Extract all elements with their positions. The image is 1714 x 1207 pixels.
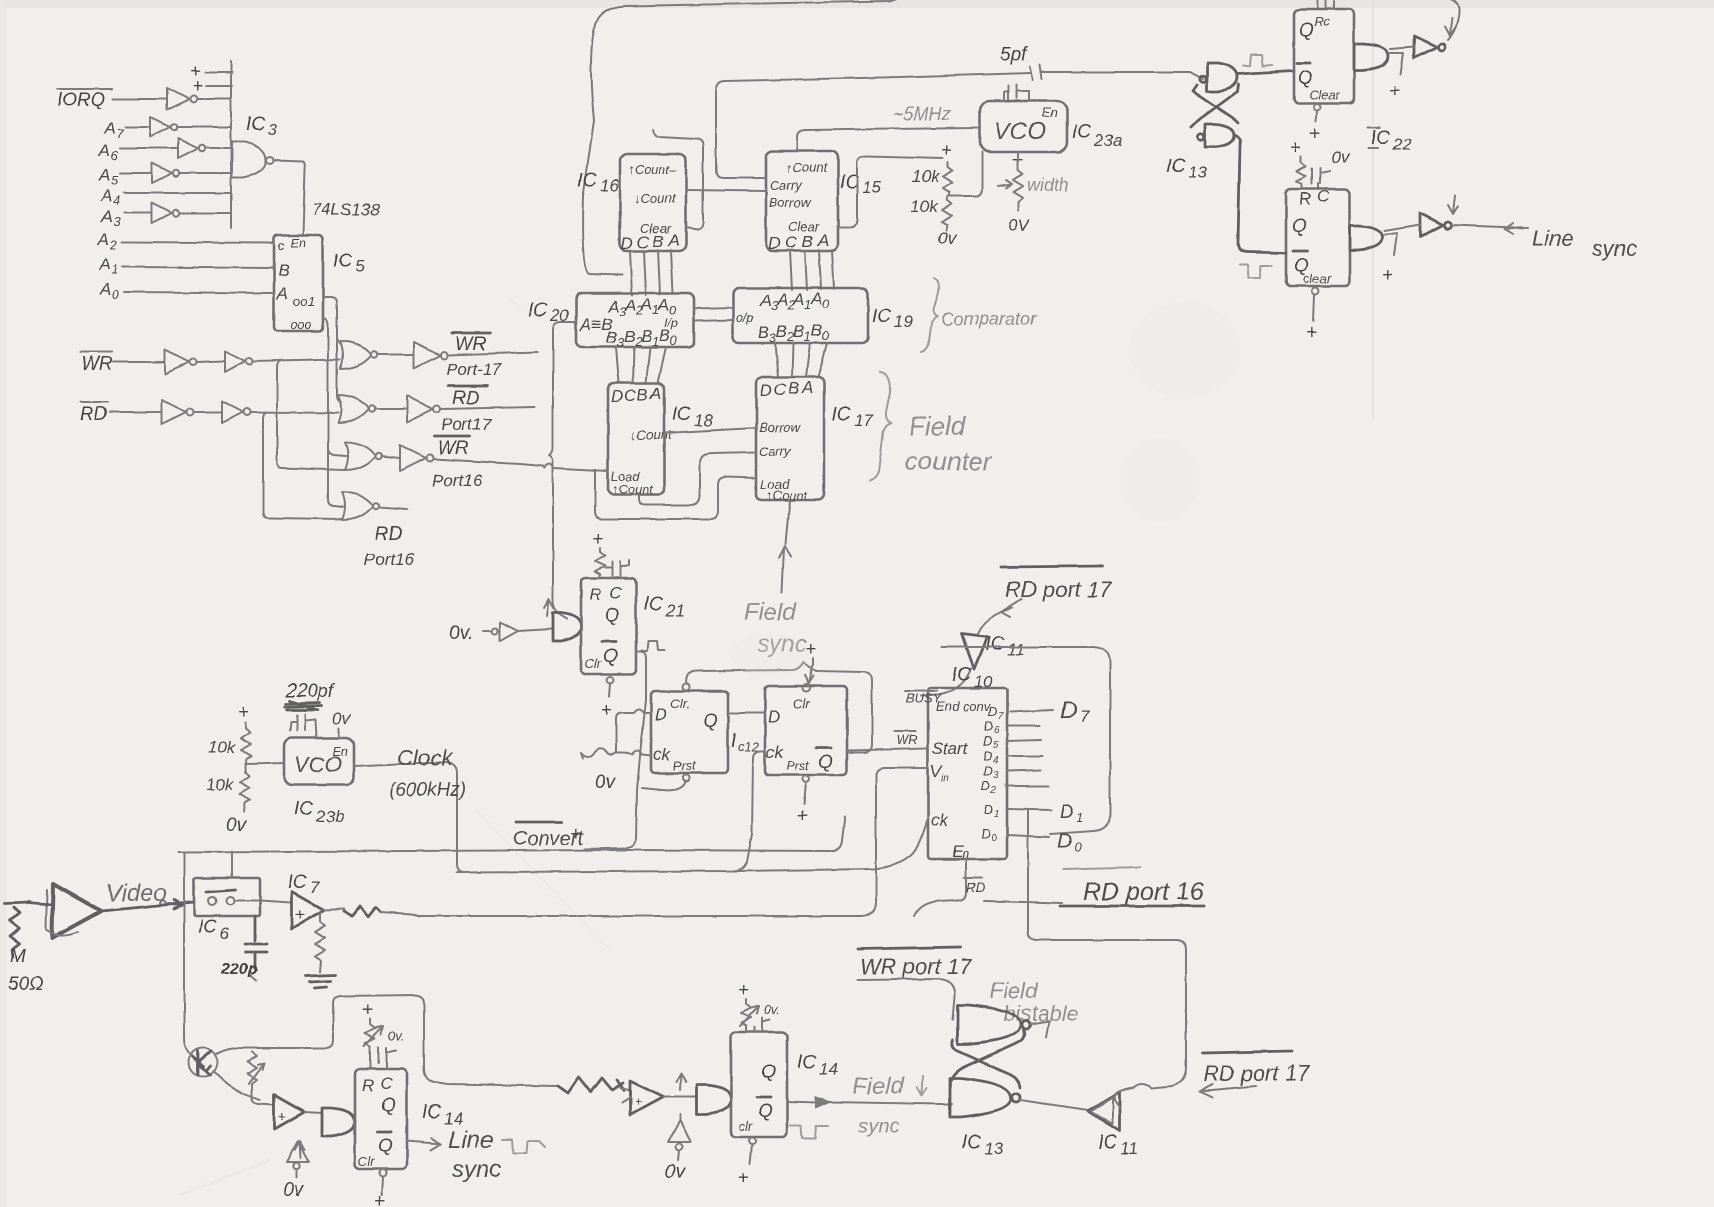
label IC20 — [528, 300, 569, 325]
power resistor cap above IC14b — [738, 980, 780, 1032]
svg-text:C: C — [637, 233, 650, 252]
adc IC10 — [905, 688, 1007, 861]
svg-text:IC: IC — [333, 251, 352, 272]
wire A5 to bus — [180, 172, 230, 174]
svg-text:+: + — [634, 1094, 642, 1109]
svg-text:width: width — [1027, 175, 1069, 195]
input bus vertical — [230, 61, 232, 228]
svg-text:ooo: ooo — [290, 317, 312, 332]
svg-text:A: A — [640, 295, 652, 314]
wire IC18 dcount to IC17 borrow — [664, 428, 756, 433]
wire D0 — [1007, 835, 1049, 837]
svg-text:0: 0 — [112, 287, 120, 302]
svg-text:I: I — [731, 731, 737, 752]
wire — [375, 408, 406, 410]
svg-text:2: 2 — [990, 785, 997, 796]
net D7 — [1060, 697, 1090, 726]
node 0v — [449, 623, 491, 644]
svg-text:IC: IC — [1098, 1132, 1117, 1153]
squiggle mark on sample wire — [558, 1077, 624, 1093]
and gate IC14a — [322, 1108, 355, 1136]
svg-text:D: D — [760, 381, 772, 400]
svg-text:+: + — [592, 529, 603, 550]
svg-text:0: 0 — [670, 333, 678, 348]
inverter RD 1 — [162, 400, 194, 424]
label IC18 — [672, 404, 713, 430]
svg-text:14: 14 — [819, 1059, 838, 1078]
wire IORQ to inverter — [113, 98, 166, 100]
svg-text:74LS138: 74LS138 — [312, 200, 381, 219]
wire 5pf line into top nand — [1190, 72, 1203, 79]
wire loop from D column to IC11 input — [1115, 1067, 1186, 1108]
wire bistable out to IC11 — [1020, 1100, 1088, 1110]
wire IC15 carry to 5pf line — [716, 73, 1030, 178]
or gate WR port17 — [340, 341, 377, 369]
monostable IC21 — [581, 578, 636, 674]
arrow annotation — [544, 599, 554, 616]
and gate IC22b trigger — [1350, 226, 1382, 250]
label IC5 — [333, 251, 365, 276]
svg-text:Q: Q — [378, 1136, 393, 1157]
label IC16 — [578, 170, 619, 195]
svg-text:3: 3 — [993, 770, 999, 781]
svg-text:A: A — [667, 231, 679, 250]
svg-text:counter: counter — [905, 446, 993, 476]
svg-text:VCO: VCO — [994, 118, 1046, 145]
potentiometer width — [998, 150, 1069, 210]
wire to video bus — [381, 912, 420, 916]
svg-text:0: 0 — [991, 833, 997, 844]
counter IC18 — [608, 383, 673, 497]
svg-text:+: + — [1306, 322, 1317, 343]
svg-text:A: A — [276, 284, 288, 303]
node 0v — [332, 709, 351, 738]
arrow annotation — [1448, 196, 1458, 214]
svg-text:↓Count: ↓Count — [634, 191, 677, 206]
svg-text:A: A — [607, 297, 619, 316]
svg-text:A: A — [99, 280, 111, 299]
wire 001 select vertical — [323, 297, 341, 402]
monostable IC14a — [355, 1069, 407, 1169]
svg-text:clear: clear — [1303, 271, 1332, 286]
svg-text:IC: IC — [294, 799, 313, 820]
faint pencil smudges — [180, 300, 1240, 1195]
svg-text:Carry: Carry — [770, 178, 803, 193]
wire top nand out to IC22a — [1237, 71, 1294, 74]
svg-text:A: A — [97, 230, 109, 249]
svg-text:ck: ck — [653, 745, 672, 764]
wire clock squiggle into IC12a ck and D loop — [581, 748, 651, 759]
svg-text:Port16: Port16 — [364, 550, 415, 569]
svg-text:17: 17 — [854, 411, 873, 430]
wire En down and left — [914, 859, 966, 916]
wire WR port16 into IC18 load with hop — [543, 464, 608, 472]
svg-text:↑Count: ↑Count — [766, 488, 809, 503]
wire IC16 clear loop — [653, 130, 703, 229]
svg-text:+: + — [737, 1168, 748, 1189]
label IC15 — [840, 172, 881, 197]
svg-text:+: + — [362, 1000, 373, 1021]
svg-text:IC: IC — [1072, 122, 1091, 143]
svg-text:A: A — [103, 119, 115, 138]
svg-text:D: D — [983, 748, 992, 763]
input connector — [5, 902, 44, 995]
wire A1 to IC5 — [122, 267, 274, 268]
svg-text:B: B — [641, 327, 652, 346]
label IC14 — [422, 1102, 463, 1128]
svg-text:o/p: o/p — [736, 310, 754, 325]
wire clamp to comparator node — [213, 1071, 260, 1100]
wire D7 — [1010, 710, 1053, 712]
label Field sync — [744, 599, 806, 658]
svg-text:7: 7 — [310, 878, 320, 897]
svg-text:Port-17: Port-17 — [446, 360, 502, 379]
inverter WR 2 — [225, 351, 253, 372]
amplifier video in — [46, 884, 101, 938]
buffer IC11 bottom — [1088, 1092, 1120, 1131]
svg-text:+: + — [374, 1191, 385, 1207]
svg-text:clr: clr — [739, 1119, 753, 1134]
switch IC6 — [194, 878, 260, 916]
wire loop around right of ADC — [941, 647, 1110, 834]
comparator IC20 — [576, 293, 694, 350]
flipflop IC12a — [651, 691, 728, 773]
svg-text:sync: sync — [452, 1156, 501, 1183]
svg-text:IC: IC — [288, 872, 307, 893]
wire load tie IC18 to IC17 — [595, 470, 756, 519]
wire — [382, 456, 399, 458]
svg-text:Field: Field — [852, 1073, 905, 1100]
svg-text:6: 6 — [111, 148, 119, 163]
wire IC3 out to IC5 En — [274, 160, 305, 234]
svg-text:Q: Q — [1292, 216, 1307, 237]
svg-text:1: 1 — [111, 262, 118, 277]
svg-text:R: R — [589, 585, 601, 604]
svg-text:B: B — [811, 321, 822, 340]
wire hook — [1389, 53, 1403, 74]
svg-text:7: 7 — [998, 711, 1004, 722]
label IC23b — [294, 799, 344, 826]
wire A7 to bus — [178, 126, 230, 128]
svg-text:0: 0 — [822, 296, 830, 311]
svg-text:D: D — [983, 733, 992, 748]
capacitor above IC23b — [290, 714, 316, 738]
svg-text:+: + — [738, 980, 749, 1001]
inverter 0v vertical — [283, 1141, 309, 1201]
label IC10 — [952, 665, 993, 691]
prst bubble IC12a and wire to convert drop — [642, 775, 690, 791]
svg-text:RD: RD — [452, 388, 480, 409]
svg-text:0: 0 — [822, 328, 830, 343]
clr bubble IC12a — [683, 684, 690, 691]
svg-text:A: A — [810, 289, 822, 308]
inverter A6 — [178, 138, 205, 158]
preset pot threshold — [247, 1052, 265, 1087]
wire D5 — [1007, 740, 1041, 741]
svg-text:WR: WR — [81, 354, 113, 375]
power resistor cap above IC14a — [362, 1000, 404, 1069]
svg-text:7: 7 — [116, 126, 124, 141]
svg-text:Clr.: Clr. — [670, 696, 690, 711]
svg-text:0v.: 0v. — [449, 623, 473, 644]
svg-text:IC: IC — [1371, 128, 1390, 149]
svg-text:A: A — [100, 207, 112, 226]
and gate IC21 trigger — [553, 612, 581, 641]
svg-text:0v: 0v — [226, 815, 248, 836]
wires IC19 B pins to IC17 — [775, 343, 827, 377]
svg-text:15: 15 — [862, 178, 881, 197]
svg-text:oo1: oo1 — [293, 294, 315, 309]
svg-text:↓Count: ↓Count — [630, 427, 673, 442]
wire IC6 out to IC7 — [234, 901, 291, 903]
svg-text:RD port 17: RD port 17 — [1005, 577, 1112, 602]
wire cross coupling — [951, 1030, 1025, 1088]
label Field bistable — [990, 978, 1079, 1026]
svg-text:10: 10 — [974, 672, 993, 691]
svg-text:Q: Q — [761, 1062, 776, 1083]
svg-text:B: B — [624, 327, 635, 346]
wire WR — [113, 361, 164, 363]
net Line sync out — [407, 1127, 545, 1183]
label IC22 — [1368, 128, 1412, 154]
wire amp out to IC6 — [101, 902, 194, 911]
svg-text:A: A — [801, 378, 813, 397]
capacitor 220p — [220, 916, 267, 981]
svg-text:4: 4 — [113, 193, 120, 208]
svg-text:WR: WR — [896, 732, 918, 747]
wire A3 — [124, 212, 151, 214]
node A6 — [98, 141, 119, 163]
or gate RD port16 — [342, 492, 379, 520]
svg-text:D: D — [983, 763, 992, 778]
arrow annotation — [676, 1073, 686, 1090]
svg-text:B: B — [637, 385, 648, 404]
wire IC11 to busy — [921, 669, 971, 696]
svg-text:Field: Field — [744, 599, 797, 626]
svg-text:Q: Q — [605, 605, 620, 626]
inverter A7 — [150, 117, 177, 137]
svg-text:B: B — [802, 232, 813, 251]
node A3 — [100, 207, 121, 229]
wire IC12a Q to IC12b D — [728, 712, 765, 714]
svg-text:+: + — [238, 702, 249, 723]
wire A4 direct to bus — [124, 192, 230, 194]
svg-text:Port17: Port17 — [441, 415, 492, 434]
svg-text:13: 13 — [984, 1139, 1003, 1158]
svg-text:C: C — [609, 583, 622, 602]
svg-text:End conv.: End conv. — [936, 699, 993, 714]
squiggle mark on video wire — [344, 906, 381, 917]
wire A3 to bus — [180, 212, 230, 214]
svg-text:16: 16 — [600, 176, 619, 195]
svg-text:IC: IC — [962, 1132, 981, 1153]
clr bubble IC12b — [803, 685, 810, 692]
node IORQ — [57, 89, 112, 111]
svg-text:sync: sync — [1592, 236, 1637, 261]
brace field counter — [870, 372, 891, 481]
svg-text:D: D — [984, 718, 993, 733]
node A1 — [98, 255, 118, 277]
wires IC15 DCBA to IC19 — [790, 250, 834, 290]
wire RD branch down to OR4 — [263, 412, 342, 519]
svg-text:A: A — [624, 296, 636, 315]
svg-text:+: + — [796, 806, 807, 827]
svg-text:14: 14 — [444, 1109, 463, 1128]
svg-text:+: + — [1389, 81, 1400, 102]
wires IC20 B pins to IC18 — [616, 347, 666, 383]
clear bubble and + below IC22a — [1309, 104, 1321, 146]
svg-text:B: B — [776, 322, 787, 341]
wire D4 — [1007, 755, 1043, 757]
svg-text:+: + — [1290, 137, 1301, 158]
svg-text:B: B — [659, 326, 670, 345]
wire RD to OR2 — [251, 412, 338, 413]
svg-text:Clr: Clr — [585, 656, 602, 671]
nand IC13 top — [1200, 63, 1237, 91]
svg-text:B: B — [652, 232, 663, 251]
net RD enable — [964, 878, 985, 895]
svg-text:0v: 0v — [665, 1162, 687, 1183]
wire bottom nand out to IC22b — [1234, 135, 1286, 253]
svg-text:Clear: Clear — [1309, 87, 1341, 102]
inverter 0v — [492, 622, 518, 641]
svg-text:6: 6 — [220, 924, 230, 943]
svg-text:10k: 10k — [208, 738, 237, 757]
wire to amp — [28, 903, 51, 905]
svg-text:R: R — [1299, 189, 1311, 208]
svg-text:B: B — [278, 261, 289, 280]
wire clock bus — [457, 751, 928, 872]
inverter WR 1 — [165, 350, 197, 374]
svg-text:IC: IC — [578, 170, 597, 191]
svg-text:IC: IC — [198, 917, 217, 938]
wire inverter to bus — [198, 98, 230, 100]
svg-text:6: 6 — [994, 725, 1000, 736]
svg-text:Q: Q — [1298, 68, 1313, 89]
wire WR branch down to OR3 — [277, 361, 345, 470]
svg-text:D: D — [1060, 697, 1077, 724]
power + marks at bus top — [190, 61, 232, 97]
wire — [194, 411, 221, 413]
svg-text:Borrow: Borrow — [759, 420, 802, 435]
svg-text:Q: Q — [1299, 20, 1314, 41]
svg-text:A: A — [776, 290, 788, 309]
svg-text:0v: 0v — [595, 772, 617, 793]
wire IC16 down-count to IC15 borrow — [686, 190, 766, 191]
label IC11 — [1098, 1132, 1138, 1158]
inverter WR port16 — [400, 445, 434, 471]
wires IC16 DCBA to IC20 — [630, 250, 673, 295]
svg-text:10k: 10k — [910, 197, 939, 216]
inverter IORQ — [167, 88, 198, 110]
svg-text:ck: ck — [766, 743, 785, 762]
svg-text:A: A — [657, 295, 669, 314]
net D1 — [1060, 802, 1083, 825]
wire — [378, 354, 413, 356]
node A2 — [97, 230, 118, 252]
svg-text:↑Count–: ↑Count– — [628, 162, 677, 177]
label IC6 — [198, 917, 230, 943]
svg-text:WR: WR — [455, 334, 487, 355]
node A4 — [100, 186, 120, 208]
svg-text:D: D — [1057, 830, 1072, 853]
node A0 — [99, 280, 120, 302]
capacitor HH on IC22a top — [1318, 0, 1334, 8]
svg-text:WR port 17: WR port 17 — [860, 954, 972, 979]
svg-text:2: 2 — [109, 237, 118, 252]
svg-text:Clr: Clr — [793, 696, 810, 711]
svg-text:En: En — [290, 235, 306, 250]
svg-text:C: C — [774, 380, 787, 399]
svg-text:0v.: 0v. — [764, 1002, 780, 1017]
label IC13 — [1166, 156, 1207, 182]
wires between IC20 and IC19 — [694, 308, 733, 321]
node WR input — [80, 352, 113, 375]
nand bistable bottom — [950, 1078, 1020, 1117]
svg-text:En: En — [332, 744, 348, 759]
svg-text:IC: IC — [246, 114, 265, 135]
nand IC13 bottom — [1198, 124, 1234, 147]
wire 5MHz from VCO to IC15 up-count — [797, 128, 978, 151]
svg-text:5: 5 — [355, 257, 365, 276]
svg-text:Clr: Clr — [358, 1154, 375, 1169]
net WR port 17 — [858, 947, 972, 1020]
prst bubble IC12b and + — [796, 776, 810, 828]
svg-text:+: + — [570, 824, 581, 845]
svg-text:Line: Line — [448, 1127, 493, 1154]
wire D3 — [1007, 770, 1041, 771]
net Clock — [354, 745, 466, 872]
svg-text:En: En — [1042, 105, 1058, 120]
wire clear net from IC12a clr over to IC12b Qbar — [686, 662, 872, 752]
svg-text:10k: 10k — [206, 775, 235, 794]
wire arc lower left part joining D column — [583, 120, 622, 275]
wire convert drive down to clamp — [184, 853, 190, 1054]
clear bubble and + below IC22b — [1306, 288, 1319, 344]
svg-text:IC: IC — [832, 404, 851, 425]
svg-text:0v: 0v — [1331, 148, 1350, 167]
resistor 10k lower — [206, 772, 250, 812]
svg-text:Video: Video — [106, 880, 167, 907]
svg-text:11: 11 — [1120, 1139, 1138, 1158]
wire IC6 control from convert — [231, 851, 233, 878]
wire sample pulse loop — [216, 995, 558, 1086]
net RD port 16 — [984, 867, 1204, 906]
net WR Port16 wire to IC18 load — [432, 436, 543, 490]
node A7 — [103, 119, 124, 141]
svg-text:1: 1 — [994, 809, 1000, 820]
svg-text:B: B — [793, 322, 804, 341]
pulse symbol low — [1240, 265, 1272, 278]
wire A0 to IC5 — [124, 292, 274, 293]
wire comparator to and — [304, 1112, 322, 1113]
svg-text:A: A — [98, 166, 110, 185]
wire A7 — [125, 126, 149, 128]
svg-text:D: D — [984, 802, 993, 817]
capacitor above VCO IC23a — [1004, 85, 1029, 101]
and gate IC22a trigger — [1354, 44, 1388, 70]
svg-text:+: + — [601, 700, 612, 721]
svg-text:Borrow: Borrow — [769, 195, 812, 210]
svg-text:D: D — [611, 387, 623, 406]
vco IC23b — [284, 738, 354, 785]
svg-text:B: B — [606, 328, 617, 347]
wire A=B down to IC21 gate — [549, 322, 576, 618]
net Field sync out — [787, 1073, 952, 1138]
svg-text:D: D — [1060, 802, 1074, 823]
wire hook top output — [1030, 1021, 1049, 1037]
net RD Port 16 — [364, 507, 415, 569]
